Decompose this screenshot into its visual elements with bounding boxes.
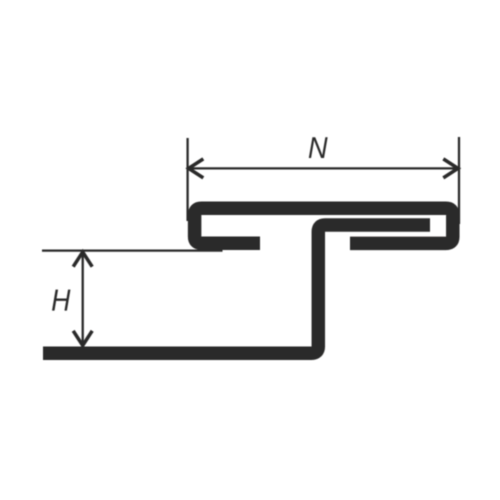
node: label N — [309, 137, 328, 158]
node: label H — [52, 290, 70, 311]
wire: reference line of dimension H — [42, 249, 223, 251]
wire: dimension line H — [82, 253, 84, 345]
wire: top flange with left and right hooks of H-profile — [195, 208, 453, 243]
node: left arrowhead of dimension N — [189, 159, 204, 178]
node: right arrowhead of dimension N — [443, 159, 458, 178]
wire: dimension line N — [190, 167, 457, 169]
node: bottom arrowhead of dimension H — [73, 331, 92, 346]
node: top arrowhead of dimension H — [73, 252, 92, 267]
wire: left extension line of dimension N — [186, 138, 188, 221]
wire: middle web, stem and bottom flange of H-profile — [43, 225, 430, 353]
wire: right extension line of dimension N — [458, 137, 460, 224]
